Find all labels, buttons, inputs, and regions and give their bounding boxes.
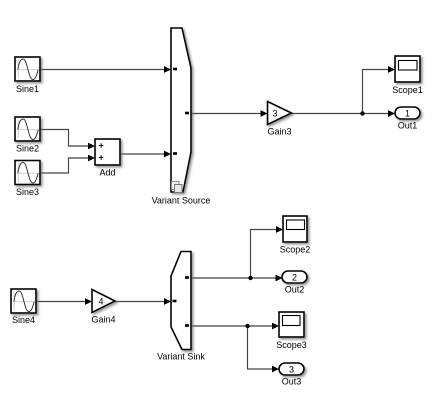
block Gain4 (triangle) [92, 290, 115, 313]
svg-text:Gain4: Gain4 [91, 315, 115, 325]
block Sine4 (sine wave source) [11, 289, 36, 313]
block Sine3 (sine wave source) [15, 161, 40, 185]
svg-text:Out1: Out1 [398, 121, 418, 131]
svg-text:Sine2: Sine2 [16, 144, 39, 154]
wire Sine3 to Add input 2 [41, 155, 96, 173]
svg-text:Variant Sink: Variant Sink [157, 352, 205, 362]
block Out1 (outport) [395, 107, 420, 119]
svg-text:Out2: Out2 [285, 285, 305, 295]
junction dot on Out1 wire [360, 111, 364, 115]
wire Sine1 to Variant Source input 1 [41, 66, 172, 73]
junction dot on Scope3 wire [245, 324, 249, 328]
block Gain3 (triangle) [268, 102, 292, 125]
wire Gain3 to junction to Out1 [292, 110, 395, 117]
block Variant Sink U2 [171, 252, 191, 350]
port dash input 2 [173, 152, 177, 155]
svg-text:Scope2: Scope2 [280, 245, 311, 255]
wire Variant Sink output 1 to junction to Out2 [192, 275, 283, 282]
svg-text:Out3: Out3 [282, 377, 302, 387]
block Add (sum) [95, 139, 120, 165]
svg-text:Add: Add [99, 168, 115, 178]
block Out2 (outport) [282, 271, 307, 283]
wire Sine2 to Add input 1 [41, 130, 96, 150]
svg-text:Sine1: Sine1 [16, 84, 39, 94]
wire branch junction up to Scope1 [363, 66, 396, 113]
block Sine2 (sine wave source) [15, 117, 40, 141]
svg-text:4: 4 [98, 297, 103, 307]
svg-text:Variant Source: Variant Source [152, 196, 211, 206]
port dash output 2 [185, 324, 189, 327]
svg-text:Sine4: Sine4 [12, 315, 35, 325]
port dash output 1 [185, 276, 189, 279]
variant badge icon [172, 182, 180, 190]
port dash input 1 [173, 68, 177, 71]
block Sine1 (sine wave source) [15, 57, 40, 81]
block Scope1 [395, 56, 420, 82]
port dash output [185, 112, 189, 115]
wire Variant Sink output 2 to Scope3 [192, 323, 280, 330]
svg-text:Scope1: Scope1 [392, 85, 423, 95]
block Out3 (outport) [279, 363, 304, 375]
svg-text:2: 2 [292, 273, 297, 283]
svg-text:3: 3 [289, 365, 294, 375]
wire Gain4 to Variant Sink input [116, 298, 172, 305]
junction dot on Out2 wire [248, 276, 252, 280]
block Scope3 [279, 312, 304, 337]
wire branch junction down to Out3 [248, 326, 280, 372]
wire Variant Source output to Gain3 [192, 110, 268, 117]
port dash input [173, 300, 177, 303]
wire branch junction up to Scope2 [251, 226, 284, 278]
wire Add to Variant Source input 2 [121, 151, 172, 158]
svg-text:Scope3: Scope3 [276, 340, 307, 350]
svg-text:1: 1 [405, 109, 410, 119]
svg-text:3: 3 [272, 109, 277, 119]
svg-text:Gain3: Gain3 [267, 127, 291, 137]
svg-text:Sine3: Sine3 [16, 187, 39, 197]
block Scope2 [283, 216, 307, 242]
block Variant Source U1 [171, 28, 191, 193]
wire Sine4 to Gain4 [37, 298, 93, 305]
